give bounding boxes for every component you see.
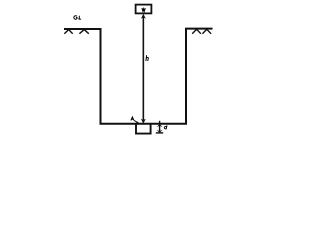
A leader arrow — [134, 120, 137, 122]
up arrowhead at W box — [141, 14, 146, 19]
node A label — [131, 117, 134, 120]
left ground line — [64, 28, 102, 30]
d label — [164, 125, 167, 129]
d dimension down arrowhead — [157, 130, 163, 133]
anvil block below pit bottom — [136, 124, 151, 134]
weight box W — [136, 5, 152, 14]
right ground hatch 1 — [192, 29, 201, 34]
h label — [146, 55, 148, 61]
left wall — [100, 28, 102, 124]
G.L label — [74, 16, 81, 20]
right ground hatch 2 — [202, 29, 211, 34]
down arrowhead at pit bottom — [141, 119, 146, 124]
drop height dimension line — [142, 16, 144, 120]
right wall — [185, 28, 187, 124]
pit bottom line — [100, 123, 188, 125]
left ground hatch 1 — [64, 30, 72, 34]
d dimension up arrowhead — [157, 124, 163, 127]
d dimension bottom bar — [156, 132, 163, 134]
W value label — [142, 8, 145, 11]
right ground line — [185, 28, 213, 30]
d dimension tick — [159, 121, 161, 133]
left ground hatch 2 — [79, 30, 88, 34]
